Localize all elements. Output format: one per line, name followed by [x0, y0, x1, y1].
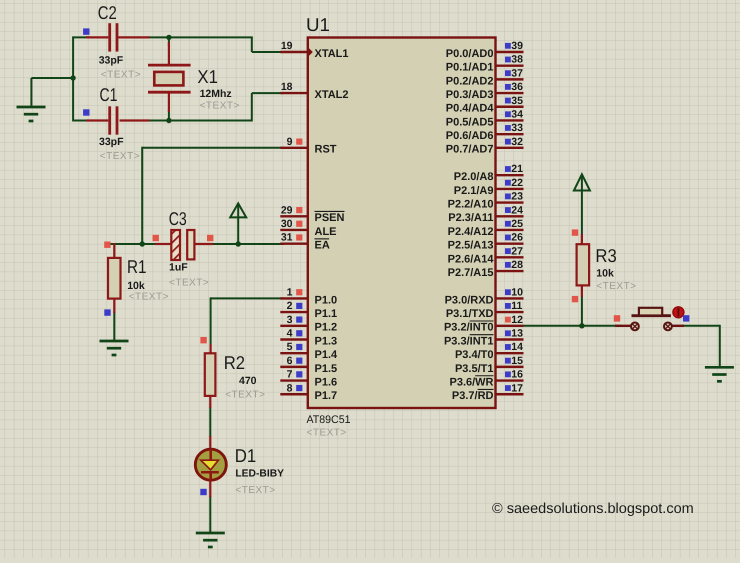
- svg-text:<TEXT>: <TEXT>: [169, 278, 209, 289]
- svg-text:P3.6/WR: P3.6/WR: [449, 376, 493, 388]
- svg-text:19: 19: [281, 40, 293, 52]
- svg-text:36: 36: [511, 81, 523, 93]
- svg-text:33: 33: [511, 122, 523, 134]
- svg-text:P3.7/RD: P3.7/RD: [452, 390, 494, 402]
- svg-text:31: 31: [281, 232, 293, 244]
- svg-text:PSEN: PSEN: [315, 212, 345, 224]
- svg-text:6: 6: [287, 355, 293, 367]
- svg-text:R3: R3: [595, 245, 616, 266]
- svg-text:P3.0/RXD: P3.0/RXD: [445, 294, 494, 306]
- svg-text:P1.7: P1.7: [315, 390, 338, 402]
- svg-text:C1: C1: [100, 84, 118, 105]
- svg-text:P3.3/INT1: P3.3/INT1: [444, 335, 494, 347]
- svg-text:12: 12: [511, 314, 523, 326]
- svg-text:ALE: ALE: [315, 226, 337, 238]
- svg-text:1: 1: [287, 286, 293, 298]
- svg-text:5: 5: [287, 341, 293, 353]
- svg-text:3: 3: [287, 314, 293, 326]
- svg-text:27: 27: [511, 245, 523, 257]
- svg-text:8: 8: [287, 382, 293, 394]
- svg-text:<TEXT>: <TEXT>: [235, 485, 275, 496]
- svg-text:P0.2/AD2: P0.2/AD2: [446, 75, 494, 87]
- svg-text:7: 7: [287, 369, 293, 381]
- svg-text:<TEXT>: <TEXT>: [129, 292, 169, 303]
- svg-text:D1: D1: [235, 445, 257, 466]
- svg-text:11: 11: [511, 300, 522, 312]
- svg-text:P3.4/T0: P3.4/T0: [455, 349, 494, 361]
- svg-text:21: 21: [511, 163, 523, 175]
- svg-text:32: 32: [511, 136, 523, 148]
- svg-text:P0.0/AD0: P0.0/AD0: [446, 48, 494, 60]
- svg-text:XTAL2: XTAL2: [315, 89, 349, 101]
- svg-text:18: 18: [281, 81, 293, 93]
- svg-text:30: 30: [281, 218, 293, 230]
- svg-text:C3: C3: [169, 208, 187, 229]
- svg-text:P0.6/AD6: P0.6/AD6: [446, 130, 494, 142]
- svg-text:10: 10: [511, 286, 523, 298]
- svg-text:P2.6/A14: P2.6/A14: [448, 253, 495, 265]
- svg-text:22: 22: [511, 177, 523, 189]
- svg-text:P0.4/AD4: P0.4/AD4: [446, 103, 495, 115]
- svg-text:34: 34: [511, 108, 523, 120]
- svg-text:<TEXT>: <TEXT>: [200, 101, 240, 112]
- svg-text:P2.3/A11: P2.3/A11: [448, 212, 493, 224]
- svg-text:35: 35: [511, 95, 523, 107]
- svg-text:P1.5: P1.5: [315, 363, 338, 375]
- svg-text:9: 9: [287, 136, 293, 148]
- svg-text:P3.1/TXD: P3.1/TXD: [446, 308, 494, 320]
- svg-text:4: 4: [287, 327, 293, 339]
- svg-text:EA: EA: [315, 240, 330, 252]
- svg-text:10k: 10k: [596, 268, 614, 280]
- svg-text:<TEXT>: <TEXT>: [100, 151, 140, 162]
- svg-text:P1.2: P1.2: [315, 322, 338, 334]
- svg-text:R1: R1: [127, 256, 147, 277]
- svg-text:<TEXT>: <TEXT>: [225, 390, 265, 401]
- svg-text:39: 39: [511, 40, 523, 52]
- svg-text:P1.1: P1.1: [315, 308, 338, 320]
- svg-text:P2.1/A9: P2.1/A9: [454, 185, 494, 197]
- svg-text:33pF: 33pF: [99, 55, 124, 67]
- svg-text:C2: C2: [98, 2, 117, 23]
- svg-text:P1.6: P1.6: [315, 376, 338, 388]
- svg-text:470: 470: [239, 375, 257, 387]
- svg-text:P2.0/A8: P2.0/A8: [454, 171, 494, 183]
- svg-text:1uF: 1uF: [169, 262, 188, 274]
- svg-text:23: 23: [511, 191, 523, 203]
- svg-text:P2.4/A12: P2.4/A12: [448, 226, 494, 238]
- svg-text:XTAL1: XTAL1: [315, 48, 349, 60]
- svg-text:10k: 10k: [127, 280, 145, 292]
- svg-text:33pF: 33pF: [99, 136, 124, 148]
- svg-text:P0.5/AD5: P0.5/AD5: [446, 116, 494, 128]
- svg-text:© saeedsolutions.blogspot.com: © saeedsolutions.blogspot.com: [492, 501, 694, 517]
- svg-text:P1.0: P1.0: [315, 294, 338, 306]
- svg-text:15: 15: [511, 355, 523, 367]
- svg-text:LED-BIBY: LED-BIBY: [235, 468, 284, 479]
- svg-text:U1: U1: [306, 14, 330, 35]
- svg-text:P0.1/AD1: P0.1/AD1: [446, 62, 494, 74]
- svg-text:29: 29: [281, 204, 293, 216]
- svg-text:25: 25: [511, 218, 523, 230]
- svg-text:14: 14: [511, 341, 523, 353]
- svg-text:RST: RST: [315, 144, 337, 156]
- svg-text:37: 37: [511, 67, 523, 79]
- svg-text:12Mhz: 12Mhz: [200, 88, 232, 100]
- svg-text:<TEXT>: <TEXT>: [307, 428, 347, 439]
- svg-text:<TEXT>: <TEXT>: [101, 70, 141, 81]
- svg-text:28: 28: [511, 259, 523, 271]
- svg-text:X1: X1: [197, 66, 218, 87]
- svg-text:38: 38: [511, 54, 523, 66]
- svg-text:P0.7/AD7: P0.7/AD7: [446, 144, 494, 156]
- svg-text:P1.4: P1.4: [315, 349, 339, 361]
- svg-text:P2.7/A15: P2.7/A15: [448, 267, 494, 279]
- svg-text:P3.2/INT0: P3.2/INT0: [444, 322, 494, 334]
- svg-text:26: 26: [511, 232, 523, 244]
- svg-text:P2.5/A13: P2.5/A13: [448, 240, 494, 252]
- svg-text:17: 17: [511, 382, 523, 394]
- svg-text:16: 16: [511, 369, 523, 381]
- svg-text:P2.2/A10: P2.2/A10: [448, 198, 494, 210]
- svg-text:AT89C51: AT89C51: [307, 414, 351, 426]
- svg-text:2: 2: [287, 300, 293, 312]
- svg-text:13: 13: [511, 327, 523, 339]
- svg-text:R2: R2: [224, 352, 245, 373]
- svg-text:P0.3/AD3: P0.3/AD3: [446, 89, 494, 101]
- svg-text:P3.5/T1: P3.5/T1: [455, 363, 494, 375]
- svg-text:24: 24: [511, 204, 523, 216]
- svg-text:<TEXT>: <TEXT>: [596, 281, 636, 292]
- svg-text:P1.3: P1.3: [315, 335, 338, 347]
